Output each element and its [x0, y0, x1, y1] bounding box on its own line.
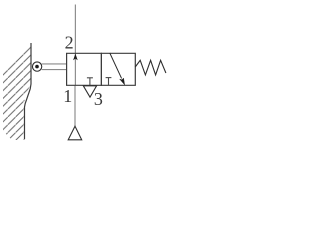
exhaust port 3 triangle: [83, 86, 96, 97]
svg-text:1: 1: [63, 86, 72, 106]
plunger stem: [42, 64, 67, 70]
wall cam edge: [25, 43, 32, 139]
arrow flow 2 to 3 right box: [110, 53, 125, 85]
wire port 2 line: [74, 5, 76, 54]
valve V1 flow path 1-2 line: [74, 53, 76, 85]
wall cam hatching: [0, 38, 34, 144]
svg-text:3: 3: [94, 89, 103, 109]
valve V1 body left position box: [67, 53, 102, 85]
roller pin dot: [35, 65, 39, 69]
blocked port 3 T symbol left box: [87, 78, 93, 85]
roller: [32, 62, 41, 71]
blocked port 1 T symbol right box: [106, 78, 112, 85]
wire port 1 line: [74, 85, 76, 126]
pressure source triangle: [68, 126, 82, 140]
svg-text:2: 2: [65, 33, 74, 53]
valve V1 body right position box: [101, 53, 135, 85]
spring return: [135, 60, 166, 75]
arrow flow 1 to 2: [73, 54, 78, 61]
